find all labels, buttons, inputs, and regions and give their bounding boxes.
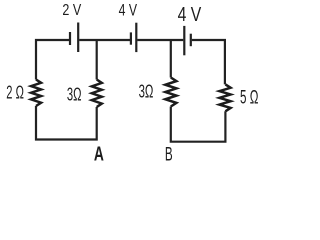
battery V3 4V negative plate (short bar) [190, 34, 192, 47]
wire bottom left loop (2Ω lead, bottom wire, 3Ω lead to node A) [36, 106, 97, 140]
svg-text:3Ω: 3Ω [139, 81, 154, 101]
svg-text:3Ω: 3Ω [67, 84, 82, 104]
svg-text:4 V: 4 V [119, 2, 137, 20]
battery V3 4V positive plate (long bar) [183, 26, 185, 55]
wire top-left segment with corner to 2Ω branch [36, 40, 69, 80]
wire top middle segment (V1 to V2 through node at 3Ω branch) [79, 39, 130, 41]
battery V2 4V positive plate (long bar) [135, 23, 137, 52]
resistor R3 3Ω zigzag [165, 78, 176, 107]
svg-text:A: A [94, 144, 104, 165]
svg-text:5 Ω: 5 Ω [240, 87, 258, 108]
wire top segment V2 to V3 through node at second 3Ω branch [137, 39, 183, 41]
wire bottom right loop (3Ω lead from node B, bottom wire, 5Ω lead) [171, 107, 226, 142]
svg-text:4 V: 4 V [178, 4, 202, 26]
battery V1 2V negative plate (short bar) [69, 32, 71, 45]
battery V1 2V positive plate (long bar) [77, 23, 79, 53]
resistor R4 5Ω zigzag [219, 84, 230, 111]
svg-text:2 Ω: 2 Ω [6, 83, 24, 103]
resistor R1 2Ω zigzag [31, 80, 41, 107]
wire 3Ω branch upper lead [96, 40, 98, 80]
wire second 3Ω branch upper lead [170, 40, 172, 78]
wire top-right segment with corner down to 5Ω [192, 40, 225, 84]
battery V2 4V negative plate (short bar) [130, 32, 132, 44]
svg-text:B: B [165, 145, 173, 165]
svg-text:2 V: 2 V [62, 2, 81, 19]
resistor R2 3Ω zigzag [92, 80, 102, 108]
